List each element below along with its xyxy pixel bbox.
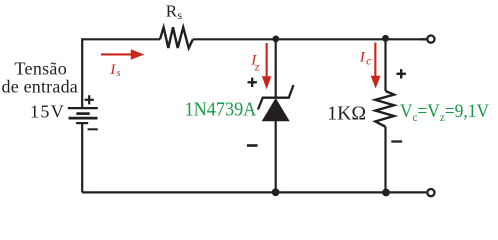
junction node bottom load — [382, 189, 390, 197]
svg-text:de entrada: de entrada — [2, 77, 78, 97]
wire bottom rail — [82, 191, 426, 193]
wire top-left from source to Rs — [82, 39, 160, 107]
svg-text:R: R — [166, 2, 178, 21]
svg-text:c: c — [366, 53, 372, 67]
svg-text:1KΩ: 1KΩ — [327, 103, 366, 125]
junction node top zener — [272, 36, 279, 43]
svg-text:15V: 15V — [30, 102, 65, 122]
svg-text:Tensão: Tensão — [15, 59, 68, 79]
svg-text:1N4739A: 1N4739A — [185, 98, 257, 120]
label resistor RS — [166, 2, 183, 22]
output terminal top — [427, 36, 434, 43]
svg-text:Vc=Vz=9,1V: Vc=Vz=9,1V — [400, 101, 489, 124]
label current IS — [109, 62, 120, 79]
svg-text:s: s — [177, 8, 182, 22]
label current IZ — [250, 52, 260, 73]
current arrow IC — [371, 43, 381, 89]
output terminal bottom — [427, 189, 434, 196]
wire zener branch top — [275, 39, 277, 97]
battery source 15V plates — [68, 108, 98, 123]
junction node bottom zener — [272, 188, 280, 196]
zener polarity plus — [248, 78, 257, 87]
zener diode D1 cathode bar with bent ends — [258, 85, 294, 110]
zener diode D1 anode triangle — [262, 98, 290, 121]
label source Tensão de entrada 15V — [2, 59, 78, 122]
resistor RS zigzag — [160, 27, 193, 48]
wire left from battery to bottom rail — [81, 123, 83, 192]
svg-text:z: z — [254, 61, 260, 73]
svg-text:I: I — [109, 62, 116, 78]
zener polarity minus — [247, 144, 258, 147]
label current IC — [359, 49, 372, 67]
load polarity minus — [391, 140, 402, 142]
resistor RL 1K zigzag — [375, 91, 394, 127]
wire right branch bottom — [384, 127, 386, 193]
load polarity plus — [397, 69, 406, 78]
svg-text:I: I — [359, 49, 366, 65]
battery polarity minus — [88, 128, 98, 130]
battery polarity plus — [85, 95, 94, 104]
svg-text:s: s — [117, 68, 121, 79]
current arrow IS — [101, 49, 144, 59]
wire output stub top — [420, 38, 426, 40]
current arrow IZ — [262, 43, 271, 89]
wire zener branch bottom — [275, 121, 277, 192]
wire right branch top — [384, 39, 386, 91]
junction node top load — [382, 35, 389, 42]
wire top from Rs to output terminal — [193, 38, 426, 40]
